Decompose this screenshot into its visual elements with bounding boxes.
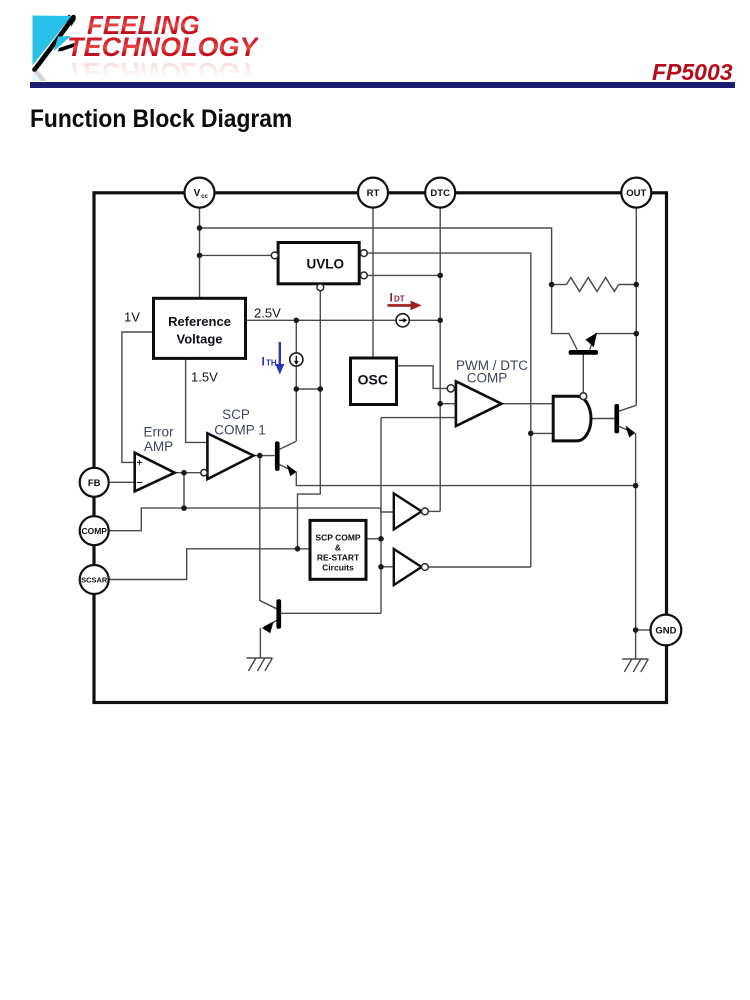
svg-text:Circuits: Circuits [322, 563, 354, 573]
svg-text:COMP 1: COMP 1 [214, 423, 266, 438]
svg-text:AMP: AMP [144, 439, 173, 454]
svg-text:&: & [335, 543, 341, 553]
svg-text:1V: 1V [124, 310, 140, 325]
svg-text:RT: RT [367, 188, 380, 199]
svg-text:I: I [390, 291, 393, 305]
svg-text:Error: Error [144, 425, 175, 440]
svg-text:Reference: Reference [168, 314, 231, 329]
svg-text:cc: cc [201, 194, 208, 200]
svg-text:SCP COMP: SCP COMP [315, 533, 361, 543]
svg-text:UVLO: UVLO [307, 256, 345, 271]
svg-text:DTC: DTC [430, 188, 450, 199]
svg-text:TH: TH [266, 359, 277, 368]
svg-text:SCP: SCP [222, 407, 250, 422]
svg-text:+: + [137, 458, 143, 469]
svg-text:DT: DT [394, 295, 405, 304]
svg-text:RE-START: RE-START [317, 553, 360, 563]
svg-text:OSC: OSC [358, 372, 388, 388]
svg-text:–: – [137, 477, 143, 489]
svg-text:2.5V: 2.5V [254, 306, 281, 321]
svg-text:SCSAR: SCSAR [81, 576, 108, 585]
svg-text:1.5V: 1.5V [191, 370, 218, 385]
svg-text:COMP: COMP [81, 526, 107, 536]
svg-text:Voltage: Voltage [177, 331, 223, 346]
svg-text:V: V [194, 188, 201, 199]
svg-text:I: I [262, 355, 265, 369]
svg-text:GND: GND [655, 626, 676, 637]
svg-text:OUT: OUT [626, 188, 646, 199]
svg-text:FB: FB [88, 478, 101, 489]
svg-text:COMP: COMP [467, 371, 508, 386]
